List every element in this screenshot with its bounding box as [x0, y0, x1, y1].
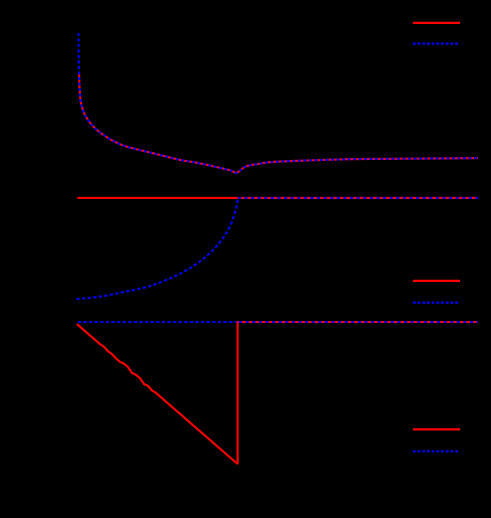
legend 2 blue dashed sample [413, 302, 460, 304]
middle subplot: blue dashed overlay on red line after join [238, 197, 478, 199]
bottom subplot: red solid rate line with step [77, 322, 478, 464]
legend 1 blue dashed sample [413, 42, 460, 44]
bottom subplot: blue dashed overlay on red after step [239, 321, 478, 323]
top subplot: blue dashed curve (numerical wellbore pressure) [79, 33, 479, 173]
middle subplot: blue dashed rising curve (numerical) [77, 198, 239, 299]
legend 3 red sample [413, 428, 460, 430]
legend 2 red sample [413, 280, 460, 282]
top subplot: red solid curve (analytic wellbore pressure) [79, 72, 478, 173]
bottom subplot: blue dashed horizontal line left segment [78, 321, 237, 323]
middle subplot: red solid horizontal line (analytic) [77, 197, 478, 199]
legend 3 blue dashed sample [413, 450, 460, 452]
legend 1 red sample [413, 22, 460, 24]
